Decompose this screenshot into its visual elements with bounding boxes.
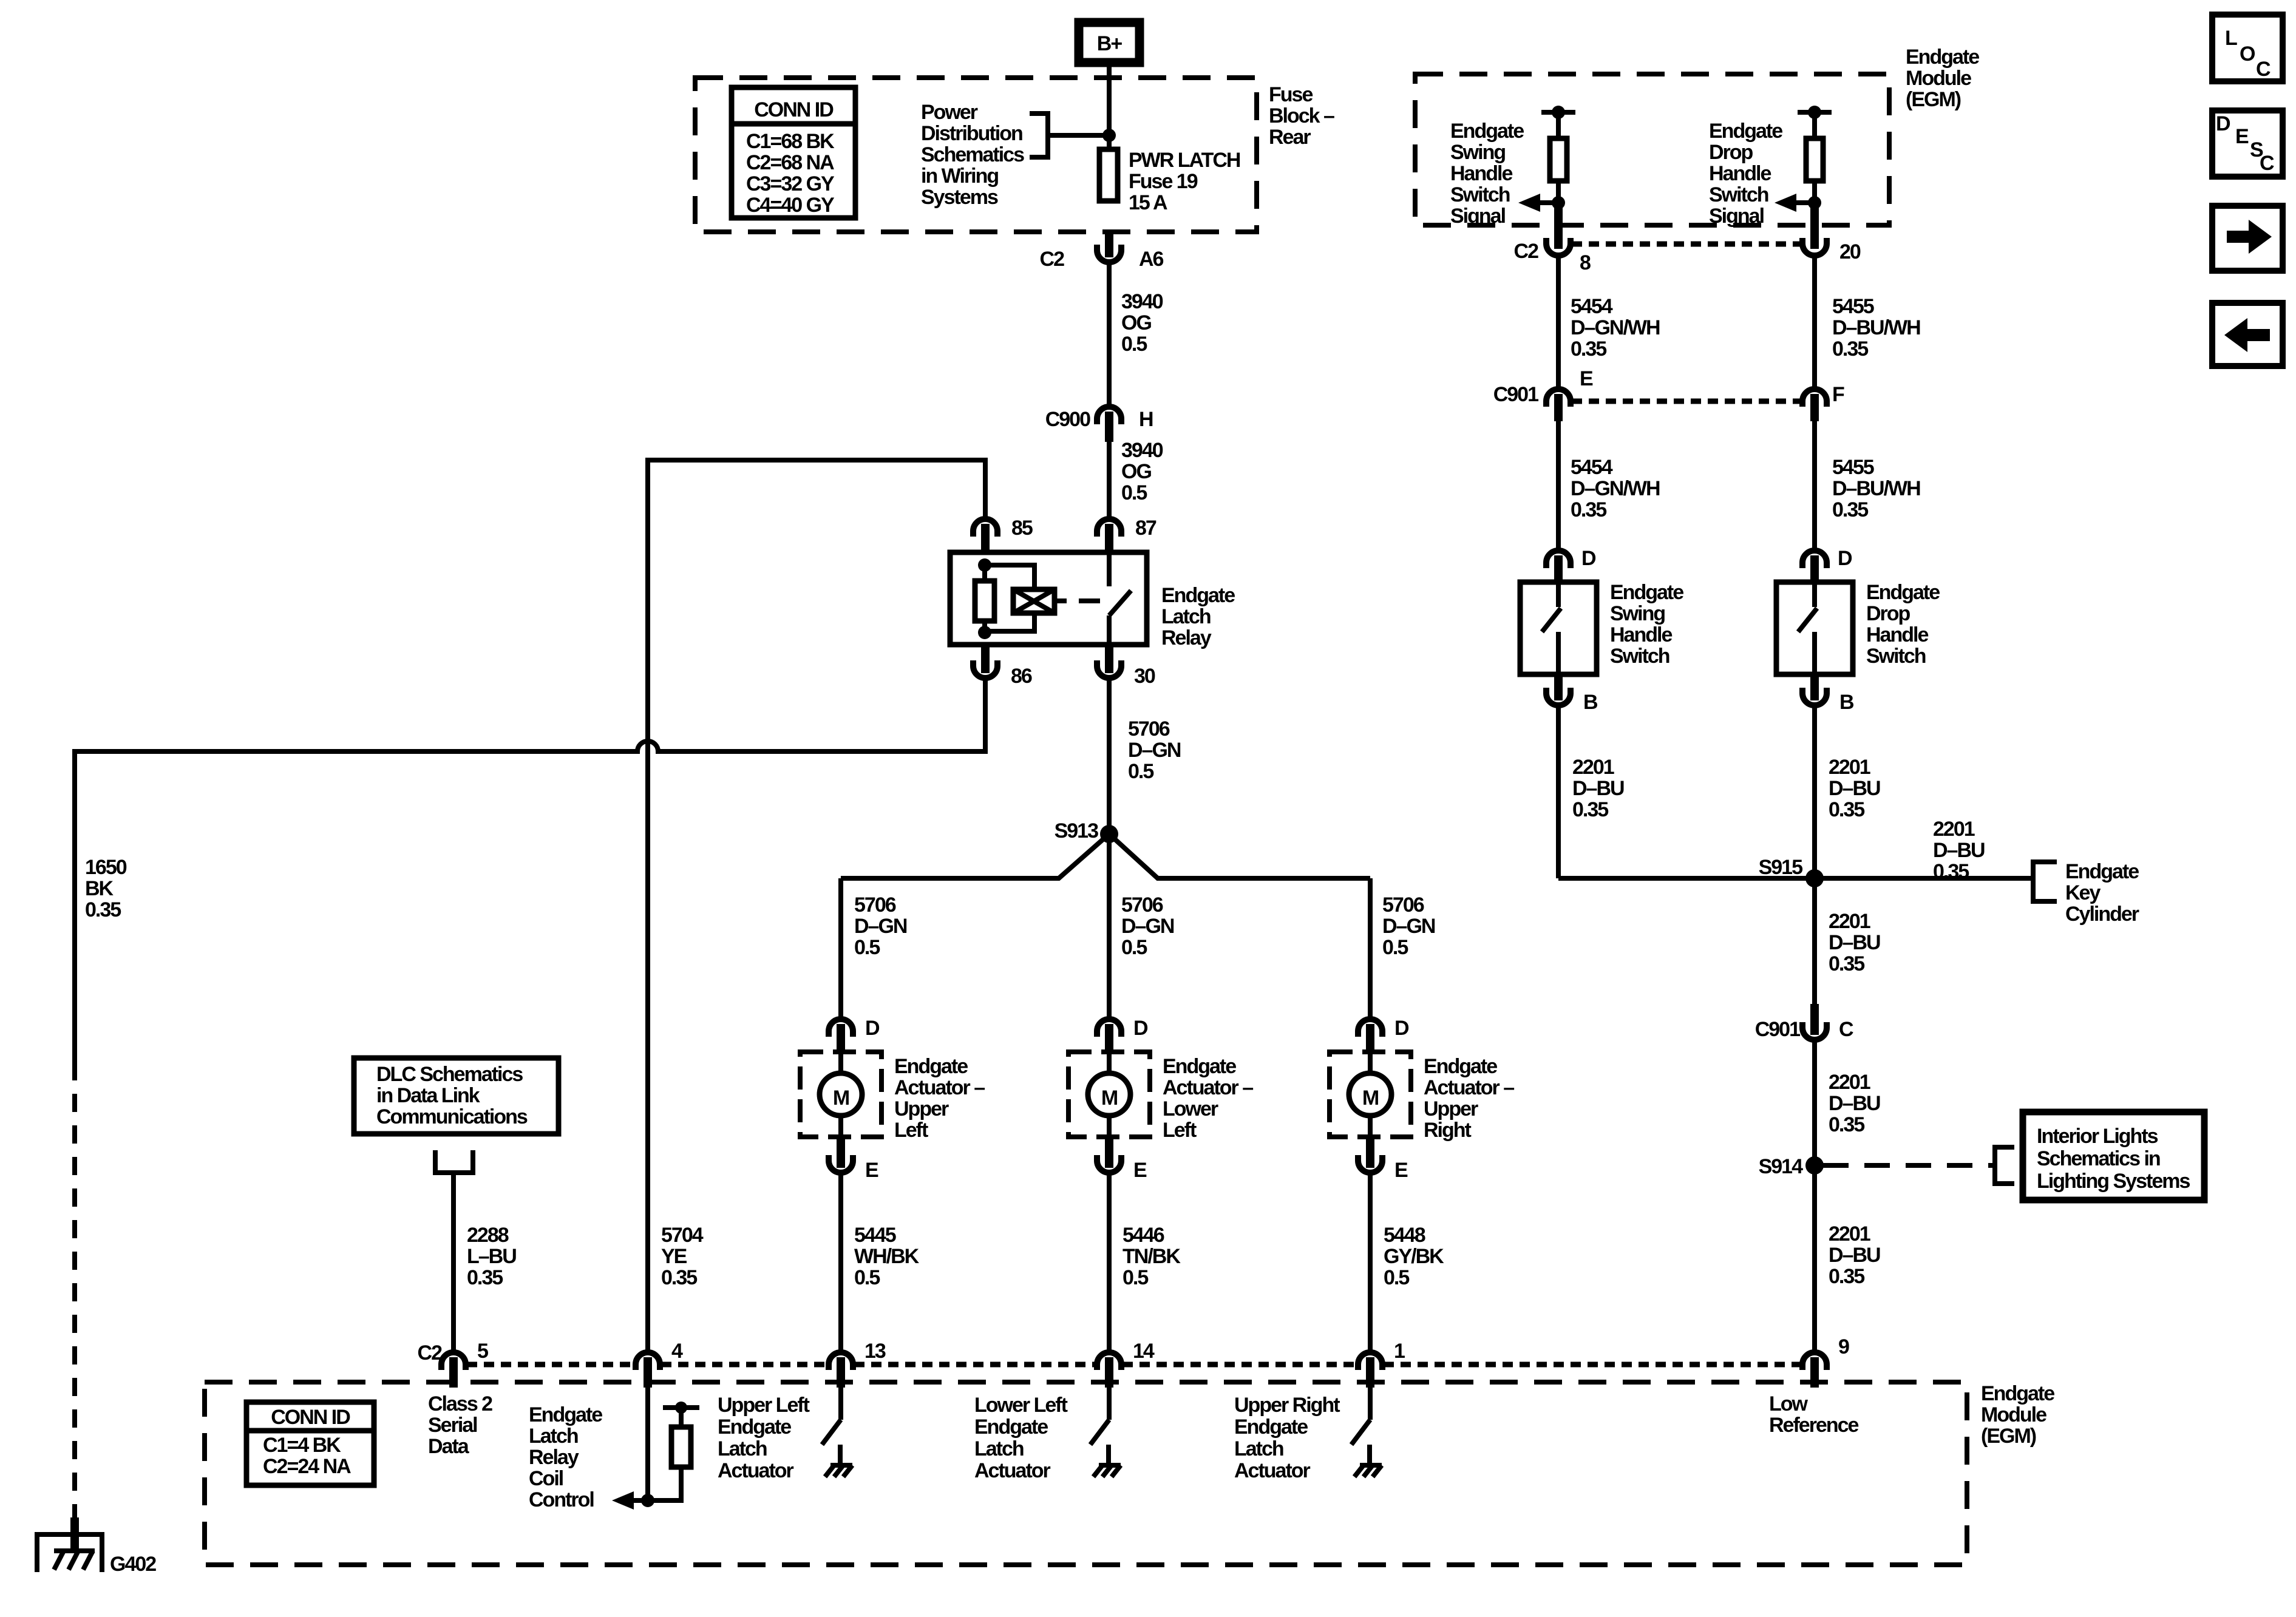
- svg-text:0.5: 0.5: [1382, 936, 1408, 959]
- wire 3940 OG 0.5: [1109, 263, 1163, 405]
- svg-text:Module: Module: [1981, 1403, 2046, 1426]
- svg-text:Reference: Reference: [1769, 1414, 1859, 1437]
- svg-text:Drop: Drop: [1866, 602, 1911, 625]
- svg-text:5706: 5706: [1121, 893, 1163, 917]
- svg-text:C901: C901: [1755, 1018, 1800, 1041]
- svg-text:OG: OG: [1121, 311, 1151, 334]
- EGM internal switch lower left latch: [1090, 1386, 1121, 1477]
- svg-text:D–BU: D–BU: [1829, 1092, 1880, 1115]
- svg-text:C2: C2: [418, 1341, 443, 1364]
- fuse PWR LATCH Fuse 19 15 A: [1099, 149, 1240, 214]
- wire 5706 D-GN 0.5 relay 30 to S913: [1109, 679, 1181, 834]
- wire 2201 D-BU 0.35 left switch to S915: [1558, 707, 1624, 878]
- connector C2 pin 1 (EGM): [1358, 1340, 1405, 1388]
- svg-text:D: D: [1394, 1017, 1409, 1040]
- svg-text:5454: 5454: [1571, 456, 1613, 479]
- svg-text:Swing: Swing: [1610, 602, 1665, 625]
- svg-text:Handle: Handle: [1709, 162, 1771, 185]
- svg-text:Switch: Switch: [1709, 183, 1768, 206]
- svg-text:14: 14: [1133, 1340, 1155, 1363]
- svg-text:Lower Left: Lower Left: [974, 1394, 1068, 1417]
- wire 2288 L-BU 0.35: [453, 1173, 516, 1352]
- wire 2201 D-BU 0.35 S914 to pin 9: [1815, 1165, 1880, 1352]
- connector row dotted line C2: [1572, 242, 1801, 247]
- relay switch contact: [1109, 552, 1131, 645]
- svg-text:3940: 3940: [1121, 439, 1163, 462]
- relay pin 86: [973, 645, 1032, 688]
- svg-text:Control: Control: [529, 1488, 594, 1511]
- svg-text:0.35: 0.35: [1832, 337, 1868, 361]
- connector pin D: [1802, 547, 1852, 582]
- svg-text:Handle: Handle: [1610, 623, 1672, 646]
- wire 3940 OG 0.5 (2): [1109, 439, 1163, 518]
- svg-text:C1=68 BK: C1=68 BK: [746, 130, 835, 153]
- relay coil winding symbol: [985, 565, 1055, 631]
- svg-text:Key: Key: [2065, 881, 2101, 904]
- svg-text:0.35: 0.35: [1571, 498, 1606, 521]
- wire B+ to fuse: [1107, 67, 1112, 147]
- svg-text:85: 85: [1011, 517, 1033, 540]
- svg-text:Drop: Drop: [1709, 141, 1753, 164]
- svg-text:Upper: Upper: [1424, 1097, 1478, 1120]
- icon arrow next: [2212, 206, 2283, 271]
- svg-text:C: C: [1839, 1018, 1853, 1041]
- svg-text:F: F: [1832, 383, 1844, 406]
- svg-text:DLC Schematics: DLC Schematics: [376, 1063, 523, 1086]
- EGM internal pull-up resistor: [1798, 106, 1832, 203]
- svg-text:Endgate: Endgate: [894, 1055, 968, 1078]
- endgate module EGM box (bottom): [205, 1382, 2054, 1565]
- label drop: [1709, 120, 1782, 228]
- svg-text:Cylinder: Cylinder: [2065, 903, 2139, 926]
- svg-text:C: C: [2256, 58, 2271, 81]
- connector C2 pin 13 (EGM): [829, 1340, 886, 1388]
- svg-text:Latch: Latch: [529, 1425, 578, 1448]
- svg-text:B: B: [1839, 691, 1854, 714]
- pin label Upper Left Endgate Latch Actuator: [718, 1394, 810, 1482]
- wire 5454 D-GN/WH 0.35: [1558, 257, 1660, 388]
- svg-text:S913: S913: [1055, 819, 1098, 842]
- svg-text:Actuator –: Actuator –: [1163, 1076, 1253, 1099]
- svg-text:D: D: [1838, 547, 1852, 570]
- svg-text:1: 1: [1394, 1340, 1405, 1363]
- svg-text:Endgate: Endgate: [529, 1403, 602, 1426]
- svg-text:20: 20: [1839, 240, 1861, 263]
- connector pin B: [1546, 674, 1598, 714]
- svg-text:2201: 2201: [1933, 818, 1975, 841]
- off-page bracket below DLC box: [435, 1150, 473, 1173]
- pin label Low Reference: [1769, 1392, 1859, 1437]
- svg-text:TN/BK: TN/BK: [1123, 1245, 1181, 1268]
- svg-text:Serial: Serial: [428, 1414, 477, 1437]
- svg-text:Data: Data: [428, 1435, 470, 1458]
- svg-text:0.35: 0.35: [1829, 952, 1864, 975]
- svg-text:in Wiring: in Wiring: [921, 164, 998, 188]
- fuse block dashed outline: [695, 78, 1257, 232]
- off-page bracket endgate key cylinder: [2033, 860, 2139, 926]
- svg-text:D–GN: D–GN: [1382, 915, 1435, 938]
- wire 2201 D-BU 0.35 right switch to S915: [1815, 707, 1880, 878]
- svg-text:0.35: 0.35: [1572, 798, 1608, 821]
- svg-text:Right: Right: [1424, 1119, 1472, 1142]
- svg-text:5706: 5706: [854, 893, 896, 917]
- connector pin E: [829, 1137, 878, 1182]
- connector C901 pin F: [1802, 383, 1844, 421]
- connector C2 pin 8: [1514, 208, 1591, 274]
- svg-text:0.5: 0.5: [1123, 1266, 1148, 1289]
- svg-text:0.35: 0.35: [1829, 1113, 1864, 1136]
- svg-text:Actuator –: Actuator –: [894, 1076, 985, 1099]
- svg-text:D–BU: D–BU: [1829, 777, 1880, 800]
- svg-text:Block –: Block –: [1269, 104, 1334, 127]
- svg-text:WH/BK: WH/BK: [854, 1245, 920, 1268]
- wire 5455 D-BU/WH 0.35: [1815, 257, 1920, 388]
- svg-text:Endgate: Endgate: [718, 1415, 791, 1439]
- svg-text:Latch: Latch: [1161, 605, 1211, 628]
- svg-text:A6: A6: [1139, 248, 1164, 271]
- svg-text:3940: 3940: [1121, 290, 1163, 313]
- svg-text:Latch: Latch: [718, 1437, 767, 1460]
- label swing: [1450, 120, 1524, 228]
- icon LOC: [2212, 15, 2283, 81]
- svg-text:Power: Power: [921, 101, 978, 124]
- svg-text:BK: BK: [85, 877, 114, 900]
- relay pin 30: [1097, 645, 1155, 688]
- EGM internal switch upper left latch: [822, 1386, 852, 1477]
- EGM internal pull-up resistor: [1541, 106, 1575, 203]
- svg-text:Endgate: Endgate: [1906, 46, 1979, 69]
- svg-text:PWR LATCH: PWR LATCH: [1129, 149, 1240, 172]
- svg-text:D–GN/WH: D–GN/WH: [1571, 477, 1660, 500]
- svg-text:D–GN/WH: D–GN/WH: [1571, 316, 1660, 339]
- connector pin 20: [1802, 208, 1861, 263]
- svg-text:D: D: [2216, 112, 2230, 135]
- connector C900 pin H: [1045, 407, 1153, 442]
- switch swing: [1520, 581, 1683, 674]
- power symbol B+: [1079, 22, 1140, 63]
- svg-text:M: M: [833, 1086, 849, 1110]
- svg-text:Module: Module: [1906, 67, 1971, 90]
- svg-text:0.5: 0.5: [1121, 333, 1147, 356]
- note Interior Lights Schematics box: [2023, 1112, 2204, 1200]
- svg-text:D–BU/WH: D–BU/WH: [1832, 477, 1920, 500]
- svg-text:Actuator: Actuator: [1234, 1459, 1311, 1482]
- svg-text:Endgate: Endgate: [2065, 860, 2139, 883]
- svg-text:Left: Left: [894, 1119, 928, 1142]
- svg-text:Endgate: Endgate: [1234, 1415, 1308, 1439]
- wire 2201 D-BU 0.35 S915 to C901: [1815, 878, 1880, 1004]
- splice S914: [1759, 1155, 1824, 1178]
- svg-text:B: B: [1583, 691, 1598, 714]
- svg-text:C4=40 GY: C4=40 GY: [746, 194, 835, 217]
- dashed wire 1650 BK to G402: [75, 856, 127, 1517]
- svg-text:Fuse 19: Fuse 19: [1129, 170, 1198, 193]
- svg-text:Endgate: Endgate: [1163, 1055, 1236, 1078]
- svg-text:S915: S915: [1759, 856, 1802, 879]
- svg-text:M: M: [1101, 1086, 1118, 1110]
- svg-text:D: D: [865, 1017, 880, 1040]
- svg-text:5448: 5448: [1384, 1224, 1425, 1247]
- svg-text:Lighting Systems: Lighting Systems: [2037, 1170, 2190, 1193]
- svg-text:Endgate: Endgate: [1424, 1055, 1497, 1078]
- svg-text:Communications: Communications: [376, 1105, 528, 1128]
- connector C2 pin 5 (EGM): [441, 1340, 488, 1388]
- svg-text:Latch: Latch: [974, 1437, 1024, 1460]
- svg-text:0.35: 0.35: [1571, 337, 1606, 361]
- svg-text:YE: YE: [661, 1245, 687, 1268]
- svg-text:D: D: [1581, 547, 1596, 570]
- svg-text:Coil: Coil: [529, 1467, 563, 1490]
- svg-text:D–BU/WH: D–BU/WH: [1832, 316, 1920, 339]
- svg-text:Left: Left: [1163, 1119, 1197, 1142]
- svg-text:Switch: Switch: [1450, 183, 1510, 206]
- svg-text:Switch: Switch: [1866, 645, 1926, 668]
- svg-text:2201: 2201: [1829, 756, 1870, 779]
- svg-text:C2: C2: [1040, 248, 1065, 271]
- svg-text:Relay: Relay: [1161, 626, 1212, 649]
- connector C2 pin 14 (EGM): [1097, 1340, 1155, 1388]
- svg-text:OG: OG: [1121, 460, 1151, 483]
- connector pin B: [1802, 674, 1854, 714]
- svg-text:Lower: Lower: [1163, 1097, 1218, 1120]
- svg-text:Endgate: Endgate: [1709, 120, 1782, 143]
- ground G402: [37, 1517, 156, 1576]
- svg-text:0.35: 0.35: [1933, 860, 1969, 883]
- relay box Endgate Latch Relay: [950, 552, 1235, 649]
- svg-text:E: E: [1394, 1159, 1408, 1182]
- svg-text:Handle: Handle: [1866, 623, 1928, 646]
- connector pin D: [1358, 1017, 1409, 1054]
- svg-text:0.35: 0.35: [1829, 1265, 1864, 1288]
- svg-text:Class 2: Class 2: [428, 1392, 492, 1415]
- svg-text:D–BU: D–BU: [1829, 1244, 1880, 1267]
- svg-text:5445: 5445: [854, 1224, 896, 1247]
- splice S915: [1759, 856, 1824, 887]
- CONN ID table (EGM): [246, 1402, 374, 1485]
- svg-text:5704: 5704: [661, 1224, 704, 1247]
- connector row dotted line C901: [1572, 399, 1801, 404]
- label C2 at EGM connector: [418, 1341, 443, 1364]
- wire 5445: [841, 1174, 920, 1352]
- svg-text:15 A: 15 A: [1129, 191, 1167, 214]
- svg-text:(EGM): (EGM): [1981, 1425, 2036, 1448]
- svg-text:CONN ID: CONN ID: [271, 1406, 350, 1429]
- svg-text:Systems: Systems: [921, 186, 998, 209]
- svg-text:Relay: Relay: [529, 1446, 579, 1469]
- svg-text:2201: 2201: [1829, 1222, 1870, 1246]
- svg-text:0.35: 0.35: [1832, 498, 1868, 521]
- svg-text:L: L: [2225, 27, 2237, 50]
- svg-text:Upper Left: Upper Left: [718, 1394, 810, 1417]
- connector C2 pin 9 (EGM): [1802, 1335, 1849, 1388]
- svg-text:0.5: 0.5: [854, 936, 880, 959]
- svg-text:Actuator: Actuator: [718, 1459, 794, 1482]
- svg-text:O: O: [2240, 42, 2255, 66]
- dashed wire S914 to interior lights: [1823, 1163, 1995, 1168]
- wire relay 86 to ground run (with hop over coil-control wire): [75, 679, 985, 1062]
- svg-text:Endgate: Endgate: [1866, 581, 1940, 604]
- svg-text:1650: 1650: [85, 856, 127, 879]
- svg-text:0.35: 0.35: [85, 898, 121, 921]
- svg-text:Endgate: Endgate: [974, 1415, 1048, 1439]
- svg-text:E: E: [1580, 367, 1593, 390]
- svg-text:9: 9: [1838, 1335, 1849, 1358]
- svg-text:Upper Right: Upper Right: [1234, 1394, 1340, 1417]
- svg-text:8: 8: [1580, 251, 1591, 274]
- svg-text:Handle: Handle: [1450, 162, 1512, 185]
- splice S913: [1055, 819, 1118, 843]
- svg-text:87: 87: [1135, 517, 1156, 540]
- svg-text:G402: G402: [110, 1553, 156, 1576]
- svg-text:GY/BK: GY/BK: [1384, 1245, 1444, 1268]
- EGM internal coil control driver: [612, 1388, 699, 1510]
- svg-text:Endgate: Endgate: [1610, 581, 1683, 604]
- note Power Distribution Schematics with pointer bracket: [921, 101, 1109, 209]
- svg-text:E: E: [1133, 1159, 1147, 1182]
- icon DESC: [2212, 110, 2283, 177]
- svg-text:Fuse: Fuse: [1269, 83, 1313, 106]
- svg-text:Signal: Signal: [1709, 205, 1764, 228]
- wire 5455 D-BU/WH 0.35 (2): [1815, 421, 1920, 549]
- wire S915 run to endgate key cylinder: [1558, 818, 2033, 883]
- switch drop: [1776, 581, 1940, 674]
- svg-text:0.5: 0.5: [1384, 1266, 1409, 1289]
- relay actuation dashes: [1055, 598, 1100, 603]
- off-page bracket interior lights: [1995, 1147, 2014, 1184]
- svg-text:B+: B+: [1097, 32, 1123, 55]
- svg-text:Latch: Latch: [1234, 1437, 1283, 1460]
- svg-text:Distribution: Distribution: [921, 122, 1022, 145]
- relay pin 87: [1097, 517, 1156, 552]
- connector pin D: [1546, 547, 1596, 582]
- connector pin E: [1097, 1137, 1147, 1182]
- svg-text:0.35: 0.35: [1829, 798, 1864, 821]
- svg-text:C2=68 NA: C2=68 NA: [746, 151, 834, 174]
- svg-text:C2: C2: [1514, 240, 1539, 263]
- svg-text:0.35: 0.35: [661, 1266, 697, 1289]
- svg-text:5455: 5455: [1832, 456, 1874, 479]
- svg-text:5454: 5454: [1571, 295, 1613, 318]
- svg-text:2288: 2288: [467, 1224, 509, 1247]
- svg-text:Endgate: Endgate: [1161, 584, 1235, 607]
- svg-text:0.5: 0.5: [1121, 936, 1147, 959]
- svg-text:CONN ID: CONN ID: [754, 98, 834, 121]
- svg-text:Interior Lights: Interior Lights: [2037, 1125, 2158, 1148]
- svg-text:D–GN: D–GN: [1128, 739, 1181, 762]
- svg-text:(EGM): (EGM): [1906, 88, 1961, 111]
- svg-text:Endgate: Endgate: [1450, 120, 1524, 143]
- wire 2201 D-BU 0.35 C901 to S914: [1815, 1041, 1880, 1165]
- svg-text:2201: 2201: [1829, 1071, 1870, 1094]
- svg-text:C1=4 BK: C1=4 BK: [263, 1434, 341, 1457]
- svg-text:Actuator: Actuator: [974, 1459, 1051, 1482]
- wire branch to upper left actuator: [841, 834, 1109, 1019]
- EGM signal arrow: [1518, 194, 1565, 212]
- svg-text:D–BU: D–BU: [1572, 777, 1624, 800]
- wire 5446: [1109, 1174, 1181, 1352]
- note DLC Schematics box: [354, 1058, 559, 1134]
- svg-text:D–BU: D–BU: [1933, 839, 1985, 862]
- pin label Endgate Latch Relay Coil Control: [529, 1403, 602, 1511]
- svg-text:Signal: Signal: [1450, 205, 1506, 228]
- connector C2 pin 4 (EGM): [636, 1340, 683, 1388]
- wire branch to lower left actuator: [1109, 834, 1174, 1019]
- svg-text:4: 4: [671, 1340, 683, 1363]
- svg-text:C3=32 GY: C3=32 GY: [746, 172, 835, 195]
- svg-text:C2=24 NA: C2=24 NA: [263, 1455, 351, 1478]
- relay pin 85: [973, 517, 1033, 552]
- fuse block label: [1269, 83, 1334, 149]
- EGM signal arrow: [1775, 194, 1821, 212]
- svg-text:Swing: Swing: [1450, 141, 1505, 164]
- svg-text:D: D: [1133, 1017, 1148, 1040]
- svg-text:5706: 5706: [1382, 893, 1424, 917]
- svg-text:Schematics in: Schematics in: [2037, 1147, 2160, 1170]
- svg-text:E: E: [2235, 125, 2249, 148]
- svg-text:Actuator –: Actuator –: [1424, 1076, 1514, 1099]
- svg-text:D–GN: D–GN: [1121, 915, 1174, 938]
- wire from relay 85 up and over to coil-control column: [648, 460, 985, 1351]
- svg-text:5: 5: [477, 1340, 488, 1363]
- svg-text:5446: 5446: [1123, 1224, 1164, 1247]
- junction on B+ wire: [1102, 129, 1116, 142]
- relay coil junction dots: [978, 558, 991, 639]
- svg-text:H: H: [1139, 408, 1153, 431]
- svg-text:13: 13: [864, 1340, 886, 1363]
- svg-text:Upper: Upper: [894, 1097, 949, 1120]
- svg-text:in Data Link: in Data Link: [376, 1084, 480, 1107]
- svg-text:D–GN: D–GN: [854, 915, 907, 938]
- svg-text:0.5: 0.5: [1128, 760, 1153, 783]
- pin label Upper Right Endgate Latch Actuator: [1234, 1394, 1340, 1482]
- svg-text:Switch: Switch: [1610, 645, 1669, 668]
- svg-text:C901: C901: [1493, 383, 1538, 406]
- connector row dotted line: [467, 1362, 1802, 1368]
- wire 5448: [1370, 1174, 1444, 1352]
- icon arrow previous: [2212, 303, 2283, 366]
- svg-text:86: 86: [1011, 665, 1032, 688]
- svg-text:Low: Low: [1769, 1392, 1809, 1415]
- svg-text:2201: 2201: [1572, 756, 1614, 779]
- svg-text:E: E: [865, 1159, 878, 1182]
- svg-text:C: C: [2260, 152, 2274, 175]
- svg-text:C900: C900: [1045, 408, 1090, 431]
- svg-text:0.5: 0.5: [1121, 481, 1147, 504]
- svg-text:Schematics: Schematics: [921, 143, 1024, 166]
- CONN ID table (fuse block): [732, 87, 855, 218]
- connector pin E: [1358, 1137, 1408, 1182]
- connector pin D: [1097, 1017, 1148, 1054]
- pin label Class 2 Serial Data: [428, 1392, 492, 1458]
- wire 5454 D-GN/WH 0.35 (2): [1558, 421, 1660, 549]
- EGM internal switch upper right latch: [1351, 1386, 1382, 1477]
- svg-text:D–BU: D–BU: [1829, 931, 1880, 954]
- svg-text:0.5: 0.5: [854, 1266, 880, 1289]
- endgate module EGM box (top): [1415, 46, 1979, 225]
- svg-text:M: M: [1362, 1086, 1379, 1110]
- svg-text:2201: 2201: [1829, 910, 1870, 933]
- svg-text:Endgate: Endgate: [1981, 1382, 2054, 1405]
- connector C901 pin C: [1755, 1004, 1853, 1041]
- svg-text:L–BU: L–BU: [467, 1245, 516, 1268]
- svg-text:30: 30: [1134, 665, 1155, 688]
- connector C2 pin A6: [1040, 229, 1164, 271]
- connector C901 pin E: [1493, 367, 1593, 421]
- relay coil resistor: [975, 565, 994, 632]
- svg-text:S914: S914: [1759, 1155, 1803, 1178]
- connector pin D: [829, 1017, 880, 1054]
- pin label Lower Left Endgate Latch Actuator: [974, 1394, 1068, 1482]
